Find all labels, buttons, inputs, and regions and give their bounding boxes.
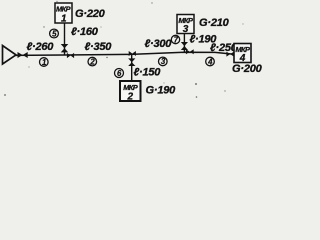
MKR3 box (177, 15, 194, 34)
node 3 (circled) (159, 57, 168, 66)
svg-text:G·210: G·210 (199, 17, 230, 29)
svg-text:3: 3 (161, 57, 166, 66)
scan speck noise (195, 83, 197, 85)
svg-text:2: 2 (127, 91, 134, 102)
main gas line from GRS to MKR4 (15, 52, 234, 55)
svg-text:7: 7 (174, 35, 179, 44)
valve on main line after junction 1 (67, 53, 71, 58)
wire branch 7 riser to MKR3 (183, 34, 185, 53)
svg-text:1: 1 (61, 13, 67, 24)
svg-text:4: 4 (207, 57, 213, 66)
valve on main line before MKR4 (226, 52, 230, 57)
valve on branch 6 (128, 58, 135, 62)
wire branch 6 drop to MKR2 (131, 54, 133, 81)
valve on main line after junction 3 (186, 49, 190, 54)
node 2 (circled) (88, 57, 97, 66)
svg-text:ℓ·350: ℓ·350 (85, 41, 113, 53)
svg-text:МКР: МКР (56, 5, 71, 14)
MKR2 box (120, 81, 141, 101)
svg-text:G·220: G·220 (75, 8, 106, 20)
MKR4 box (234, 44, 251, 63)
node 5 (circled) (50, 29, 59, 38)
svg-text:ℓ·150: ℓ·150 (134, 67, 162, 79)
valve on branch 5 (61, 44, 69, 48)
svg-text:1: 1 (42, 58, 46, 67)
valve on branch 7 (181, 42, 188, 46)
svg-text:6: 6 (117, 69, 122, 78)
svg-text:ℓ·160: ℓ·160 (71, 26, 99, 38)
node 7 (circled) (171, 35, 179, 43)
valve at source outlet (18, 52, 23, 58)
node 6 (circled) (115, 69, 124, 78)
node 4 (circled) (206, 57, 215, 66)
svg-text:ℓ·300: ℓ·300 (145, 38, 173, 50)
paper background (0, 0, 265, 109)
svg-text:2: 2 (89, 57, 95, 66)
source triangle (GRS) (3, 46, 17, 65)
svg-text:5: 5 (52, 29, 57, 38)
valve on main line at junction 2 (129, 51, 133, 56)
node 1 (circled) (40, 58, 49, 67)
svg-text:ℓ·260: ℓ·260 (27, 41, 55, 53)
svg-text:G·190: G·190 (146, 85, 177, 97)
svg-text:G·200: G·200 (232, 63, 263, 75)
wire branch 5 riser to MKR1 (64, 23, 66, 55)
svg-text:3: 3 (183, 24, 189, 35)
MKR1 box (55, 3, 72, 23)
